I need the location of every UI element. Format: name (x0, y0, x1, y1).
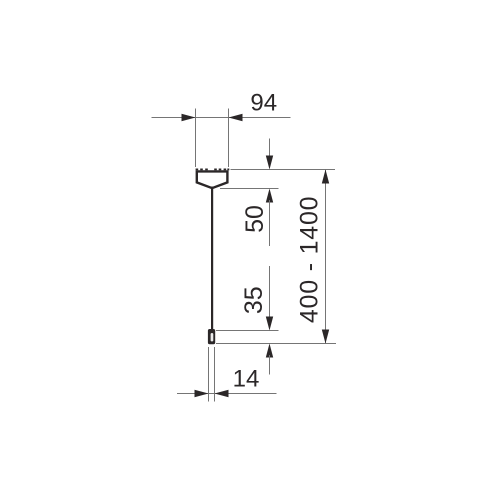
svg-text:50: 50 (241, 205, 269, 233)
dimension 94: left arrowhead (182, 114, 196, 121)
dimension 14: dimension line (177, 393, 277, 395)
dimension 14: right extension line (214, 347, 216, 402)
dimension 50: value label (241, 205, 269, 233)
dimension 400-1400: dimension line (325, 170, 327, 344)
dimension 400-1400: top arrowhead (up) (322, 170, 329, 184)
svg-text:14: 14 (233, 366, 260, 393)
dimension 35: value label (240, 286, 268, 314)
extension line: cord stop top level (216, 330, 279, 332)
dimension 14: value label (233, 366, 260, 393)
dimension 14: left arrowhead (195, 390, 209, 397)
dimension 35: lower leader line (269, 355, 271, 375)
canopy outline (197, 171, 228, 187)
dimension 94: value label (250, 90, 277, 117)
dimension 35: upper leader line (269, 266, 271, 319)
dimension 400-1400: value label (296, 196, 324, 324)
dimension 50: upper arrowhead (down) (266, 156, 273, 170)
dimension 14: left extension line (208, 347, 210, 402)
dimension 50: upper leader line (269, 139, 271, 159)
dimension 94: right extension line (228, 109, 230, 168)
extension line: canopy bottom level (220, 188, 279, 190)
dimension 50: lower arrowhead (up) (266, 189, 273, 203)
cord stop body (208, 329, 215, 344)
extension line: canopy top level (231, 169, 336, 171)
dimension 400-1400: bottom arrowhead (down) (322, 330, 329, 344)
dimension 14: right arrowhead (215, 390, 229, 397)
extension line: cord stop bottom level (216, 343, 336, 345)
dimension 94: dimension line (152, 117, 291, 119)
svg-text:35: 35 (240, 286, 268, 314)
dimension 94: right arrowhead (229, 114, 243, 121)
svg-text:94: 94 (250, 90, 277, 117)
cord stop slot (211, 333, 214, 341)
canopy serrated top edge (196, 169, 230, 171)
dimension 35: upper arrowhead (down) (266, 317, 273, 331)
dimension 94: left extension line (195, 109, 197, 168)
dimension 35: lower arrowhead (up) (266, 344, 273, 358)
suspension cable (211, 189, 213, 331)
svg-text:400 - 1400: 400 - 1400 (296, 196, 324, 324)
dimension 50: lower leader line (269, 200, 271, 246)
